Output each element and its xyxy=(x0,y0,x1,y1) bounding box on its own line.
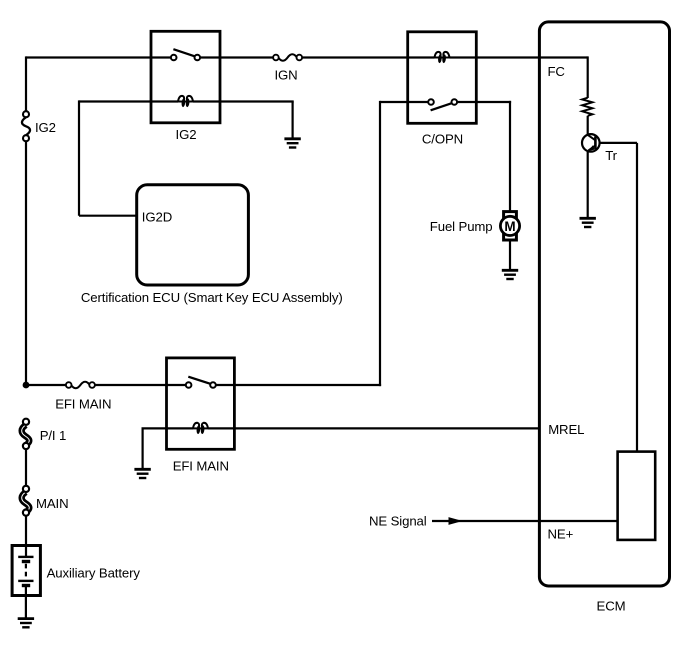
svg-text:NE+: NE+ xyxy=(548,526,574,541)
ground: IG2 relay coil xyxy=(284,139,300,148)
wire: resistor to transistor collector xyxy=(587,116,589,135)
wire: C/OPN switch left lead xyxy=(380,101,428,103)
wire: battery negative to ground xyxy=(25,596,27,619)
wire: transistor emitter to ground xyxy=(587,152,589,218)
wire: EFI MAIN fuse to relay switch xyxy=(95,384,185,386)
svg-text:IG2: IG2 xyxy=(176,127,197,142)
wire: IG2 relay coil left lead to IG2D drop xyxy=(79,100,178,102)
svg-text:EFI MAIN: EFI MAIN xyxy=(55,397,111,412)
relay EFI MAIN switch arm xyxy=(188,377,210,384)
relay IG2 switch arm xyxy=(173,49,194,56)
ground: fuel pump xyxy=(502,270,518,279)
relay IG2 coil xyxy=(178,96,194,107)
svg-text:P/I 1: P/I 1 xyxy=(40,428,67,443)
svg-text:NE Signal: NE Signal xyxy=(369,514,427,529)
wire: IG2D feed horizontal into Certification ECU xyxy=(79,215,138,217)
wire: EFI MAIN switch to C/OPN riser xyxy=(216,384,381,386)
wire: left vertical riser, IG2 connector down to EFI MAIN junction xyxy=(25,141,27,386)
wire: MREL net, EFI MAIN coil to ECM xyxy=(208,427,539,429)
wire: C/OPN coil to ECM FC pin xyxy=(450,56,588,58)
wire: C/OPN switch to fuel pump drop xyxy=(457,101,511,103)
relay EFI MAIN box xyxy=(167,358,235,449)
wire: IG2D feed vertical (x=79) xyxy=(78,100,80,215)
wire: fuel pump to ground xyxy=(509,240,511,270)
transistor Tr xyxy=(582,134,600,152)
relay IG2 box xyxy=(151,31,220,123)
svg-text:Auxiliary Battery: Auxiliary Battery xyxy=(47,565,141,580)
wire: EFI MAIN coil left lead to ground drop xyxy=(142,427,194,429)
relay C/OPN box xyxy=(408,32,477,124)
svg-text:EFI MAIN: EFI MAIN xyxy=(173,458,229,473)
wire: fuel pump feed vertical (x=510) xyxy=(509,101,511,212)
fusible link MAIN xyxy=(22,486,30,516)
wire: NE signal line with arrowhead into NE+ pin xyxy=(432,517,618,525)
wire: vertical from EFI MAIN switch up to C/OPN switch (x=380) xyxy=(379,101,381,386)
svg-text:MAIN: MAIN xyxy=(36,496,69,511)
ground: EFI MAIN relay coil xyxy=(134,469,150,478)
svg-text:Fuel Pump: Fuel Pump xyxy=(430,219,493,234)
wire: IG2 switch output to IGN fuse xyxy=(200,56,273,58)
ground: transistor emitter (inside ECM) xyxy=(580,218,596,227)
svg-text:MREL: MREL xyxy=(548,422,584,437)
svg-text:IG2D: IG2D xyxy=(142,209,172,224)
wire: junction to EFI MAIN fuse xyxy=(26,384,66,386)
wire: IGN fuse to C/OPN relay coil xyxy=(303,56,435,58)
relay C/OPN switch arm xyxy=(431,103,452,110)
wire: base net vertical down to driver block xyxy=(636,143,638,452)
wire: MAIN link to battery xyxy=(25,516,27,557)
wire: left vertical riser top (corner at 26,57.5 down to IG2 connector) xyxy=(25,56,27,111)
wire: IG2 relay coil right lead xyxy=(193,100,294,102)
svg-text:IG2: IG2 xyxy=(35,120,56,135)
Certification ECU (Smart Key ECU Assembly) box xyxy=(137,185,249,285)
svg-text:IGN: IGN xyxy=(275,68,298,83)
wire: transistor base lead right xyxy=(600,142,638,144)
fuse IGN xyxy=(273,54,302,60)
svg-text:Certification ECU (Smart Key E: Certification ECU (Smart Key ECU Assembl… xyxy=(81,290,343,305)
relay EFI MAIN coil xyxy=(193,423,209,434)
connector IG2 (in-line connector, wavy link between two circles) xyxy=(22,111,30,141)
svg-text:FC: FC xyxy=(548,64,566,79)
fusible link P/I 1 xyxy=(22,419,30,449)
svg-text:ECM: ECM xyxy=(597,599,626,614)
svg-text:Tr: Tr xyxy=(605,148,617,163)
resistor (FC pull-up) xyxy=(582,98,592,116)
wire: FC net vertical into resistor xyxy=(587,56,589,98)
junction: B+ riser / EFI MAIN fuse tap xyxy=(23,382,30,389)
svg-text:C/OPN: C/OPN xyxy=(422,132,463,147)
wire: IG2 coil ground drop xyxy=(292,102,294,139)
ECM box xyxy=(539,22,669,586)
ground: battery xyxy=(18,619,34,628)
wire: EFI MAIN coil ground drop vertical xyxy=(142,428,144,469)
battery: Auxiliary Battery xyxy=(12,546,40,596)
fuse EFI MAIN xyxy=(66,382,95,388)
block: ECM internal module xyxy=(618,452,656,540)
relay EFI MAIN switch contact circles xyxy=(186,382,192,388)
wire: main B+ bus, top horizontal from left riser to IG2 relay switch xyxy=(26,56,171,58)
wire: P/I 1 to MAIN link xyxy=(25,449,27,486)
motor: fuel pump xyxy=(500,212,519,240)
relay IG2 switch contact circles xyxy=(171,55,177,61)
relay C/OPN coil xyxy=(434,52,450,63)
svg-text:M: M xyxy=(504,219,515,234)
relay C/OPN switch contact circles xyxy=(428,99,434,105)
